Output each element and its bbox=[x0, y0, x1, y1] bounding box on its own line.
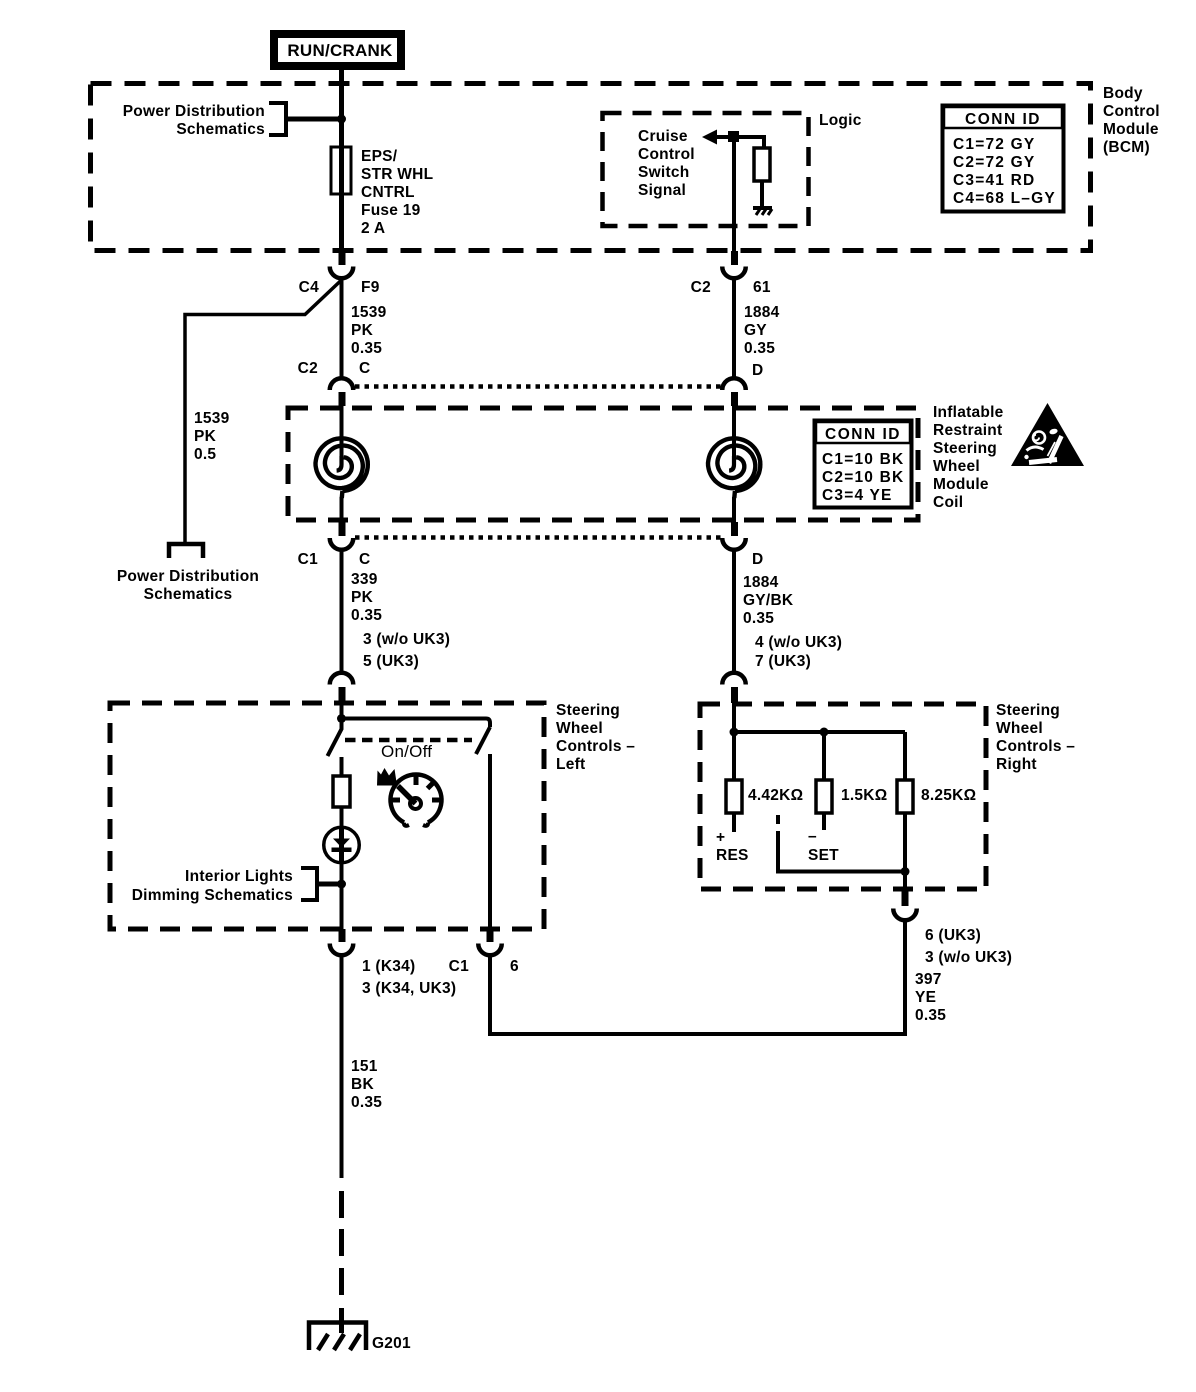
wire fuse to BCM bottom bbox=[339, 194, 344, 251]
wire 1884 GY/BK 0.35 bbox=[732, 549, 736, 672]
svg-text:GY/BK: GY/BK bbox=[743, 592, 794, 609]
wire bus to R RES bbox=[732, 732, 736, 780]
cruise gauge icon bbox=[391, 775, 442, 826]
svg-text:Schematics: Schematics bbox=[176, 121, 265, 138]
svg-text:1884: 1884 bbox=[744, 304, 780, 321]
svg-text:3 (K34, UK3): 3 (K34, UK3) bbox=[362, 980, 456, 997]
wire resistor bus bbox=[734, 730, 905, 734]
svg-text:C1=72 GY: C1=72 GY bbox=[953, 136, 1035, 153]
svg-text:C3=41 RD: C3=41 RD bbox=[953, 172, 1035, 189]
svg-text:1 (K34): 1 (K34) bbox=[362, 958, 415, 975]
svg-text:4 (w/o UK3): 4 (w/o UK3) bbox=[755, 634, 842, 651]
svg-text:Schematics: Schematics bbox=[144, 586, 233, 603]
connector cap C2/C left bbox=[330, 378, 354, 390]
svg-text:151: 151 bbox=[351, 1058, 378, 1075]
lamp LED symbol bbox=[324, 827, 360, 864]
resistor 8.25K bbox=[897, 780, 913, 813]
Steering Wheel Controls Right dashed box bbox=[700, 704, 986, 889]
svg-text:3 (w/o UK3): 3 (w/o UK3) bbox=[363, 631, 450, 648]
svg-text:339: 339 bbox=[351, 571, 378, 588]
label Steering Wheel Controls Left bbox=[556, 702, 635, 773]
Inflatable Restraint Steering Wheel Module Coil dashed box bbox=[288, 408, 918, 520]
svg-text:CNTRL: CNTRL bbox=[361, 184, 415, 201]
junction dot at trunk bbox=[337, 115, 346, 124]
connector stub C2 at BCM bottom right bbox=[731, 251, 738, 265]
wire bus to R 8.25K bbox=[903, 732, 907, 780]
Body Control Module dashed box bbox=[91, 84, 1091, 251]
wire trunk BCM top to fuse bbox=[339, 84, 344, 148]
svg-text:Signal: Signal bbox=[638, 182, 686, 199]
wire switch common bbox=[778, 831, 905, 872]
wire blade to resistor bbox=[340, 757, 344, 776]
junction dot logic bbox=[728, 131, 739, 142]
svg-text:8.25KΩ: 8.25KΩ bbox=[921, 787, 976, 804]
svg-text:STR WHL: STR WHL bbox=[361, 166, 433, 183]
svg-text:Wheel: Wheel bbox=[933, 458, 980, 475]
dotted line connector row 1 bbox=[355, 384, 721, 389]
svg-text:Control: Control bbox=[638, 146, 695, 163]
connector stub below right SWC box bbox=[902, 891, 909, 906]
warning triangle icon bbox=[1011, 403, 1084, 466]
svg-text:C: C bbox=[359, 551, 370, 568]
label Power Distribution Schematics (bottom) bbox=[117, 568, 259, 603]
fuse EPS/STR WHL CNTRL Fuse 19 2A bbox=[331, 147, 351, 194]
svg-text:C2=72 GY: C2=72 GY bbox=[953, 154, 1035, 171]
svg-text:CONN ID: CONN ID bbox=[825, 426, 901, 443]
svg-text:Dimming Schematics: Dimming Schematics bbox=[132, 887, 293, 904]
svg-text:Body: Body bbox=[1103, 85, 1143, 102]
svg-text:5 (UK3): 5 (UK3) bbox=[363, 653, 419, 670]
connector stub into left SWC box bbox=[339, 687, 346, 702]
label wire 1539 PK 0.5 bbox=[194, 410, 230, 463]
svg-text:2 A: 2 A bbox=[361, 220, 385, 237]
switch blade left (On/Off) bbox=[328, 721, 342, 756]
svg-text:Wheel: Wheel bbox=[556, 720, 603, 737]
svg-text:C4: C4 bbox=[299, 279, 319, 296]
svg-text:1539: 1539 bbox=[351, 304, 387, 321]
svg-text:Steering: Steering bbox=[996, 702, 1060, 719]
connector table CONN ID (coil) bbox=[815, 421, 912, 508]
svg-text:Coil: Coil bbox=[933, 494, 963, 511]
svg-text:Left: Left bbox=[556, 756, 585, 773]
coil right (steering wheel coil) bbox=[708, 406, 760, 498]
ground G201 bbox=[309, 1308, 366, 1350]
svg-text:C3=4 YE: C3=4 YE bbox=[822, 487, 893, 504]
switch blade right (On/Off) bbox=[476, 727, 490, 754]
coil left (steering wheel coil) bbox=[316, 406, 368, 498]
svg-text:1539: 1539 bbox=[194, 410, 230, 427]
connector stub C4 at BCM bottom bbox=[339, 251, 346, 265]
svg-text:Module: Module bbox=[1103, 121, 1159, 138]
svg-text:Module: Module bbox=[933, 476, 989, 493]
connector stub below coil box left bbox=[339, 522, 346, 536]
label fuse value bbox=[361, 148, 433, 237]
wire 397 YE routing bbox=[490, 919, 905, 1034]
connector cup C1/6 bbox=[478, 944, 502, 956]
svg-text:Wheel: Wheel bbox=[996, 720, 1043, 737]
dotted line connector row 2 bbox=[355, 535, 721, 540]
connector stub below coil box right bbox=[731, 522, 738, 536]
svg-text:6: 6 bbox=[510, 958, 519, 975]
wire RUN/CRANK to BCM bbox=[339, 70, 344, 84]
svg-text:Cruise: Cruise bbox=[638, 128, 688, 145]
svg-text:C1=10 BK: C1=10 BK bbox=[822, 451, 904, 468]
resistor 4.42K bbox=[726, 780, 742, 813]
svg-text:Steering: Steering bbox=[556, 702, 620, 719]
label Body Control Module (BCM) bbox=[1103, 85, 1160, 156]
ground in logic box bbox=[753, 206, 772, 215]
svg-text:Controls –: Controls – bbox=[996, 738, 1075, 755]
svg-text:Right: Right bbox=[996, 756, 1037, 773]
svg-text:Switch: Switch bbox=[638, 164, 689, 181]
svg-text:3 (w/o UK3): 3 (w/o UK3) bbox=[925, 949, 1012, 966]
svg-text:D: D bbox=[752, 362, 763, 379]
svg-text:SET: SET bbox=[808, 847, 839, 864]
bracket Interior Lights bbox=[301, 868, 317, 900]
wire 151 BK 0.35 bbox=[340, 954, 344, 1178]
svg-text:D: D bbox=[752, 551, 763, 568]
svg-text:C: C bbox=[359, 360, 370, 377]
svg-text:G201: G201 bbox=[372, 1335, 411, 1352]
junction dot right bus left bbox=[730, 728, 739, 737]
connector cap into left SWC box bbox=[330, 673, 354, 685]
svg-text:C1: C1 bbox=[298, 551, 318, 568]
svg-text:0.35: 0.35 bbox=[743, 610, 774, 627]
wire switch top bus bbox=[342, 719, 491, 728]
label Inflatable Restraint Steering Wheel Module Coil bbox=[933, 404, 1004, 511]
wire branch diagonal to Power Distribution bbox=[185, 280, 342, 542]
resistor left SWC bbox=[333, 776, 350, 807]
switch common dashed tick bbox=[776, 815, 780, 824]
svg-text:C2=10 BK: C2=10 BK bbox=[822, 469, 904, 486]
svg-text:GY: GY bbox=[744, 322, 767, 339]
svg-text:Controls –: Controls – bbox=[556, 738, 635, 755]
connector stub below left SWC box (left) bbox=[339, 929, 346, 942]
wire bracket to main trunk bbox=[286, 117, 342, 122]
connector cup 6/3 bbox=[893, 909, 917, 921]
connector cup C2/61 bbox=[722, 267, 746, 279]
svg-text:BK: BK bbox=[351, 1076, 374, 1093]
junction dot switch node bbox=[337, 714, 346, 723]
switch linkage dashed bbox=[345, 738, 472, 743]
wire resistor to ground bbox=[760, 181, 764, 206]
svg-text:PK: PK bbox=[194, 428, 217, 445]
svg-text:0.5: 0.5 bbox=[194, 446, 216, 463]
wire resistor to lamp bbox=[340, 807, 344, 827]
connector cup D (below coil) bbox=[722, 538, 746, 550]
wire logic junction down through BCM bottom bbox=[732, 137, 736, 251]
wire coil left exit bbox=[340, 497, 344, 522]
svg-text:RES: RES bbox=[716, 847, 749, 864]
off-page connector symbol Power Distribution bbox=[169, 544, 203, 558]
bracket for Power Distribution label bbox=[269, 103, 286, 135]
svg-text:Fuse 19: Fuse 19 bbox=[361, 202, 421, 219]
svg-text:(BCM): (BCM) bbox=[1103, 139, 1150, 156]
svg-text:–: – bbox=[808, 828, 817, 845]
svg-text:Restraint: Restraint bbox=[933, 422, 1002, 439]
label + RES bbox=[716, 829, 749, 864]
label wire 1539 PK 0.35 bbox=[351, 304, 387, 357]
wire right switch leg bbox=[488, 754, 492, 929]
svg-text:0.35: 0.35 bbox=[915, 1007, 946, 1024]
svg-text:Inflatable: Inflatable bbox=[933, 404, 1004, 421]
svg-text:+: + bbox=[716, 829, 725, 846]
svg-text:C4=68 L–GY: C4=68 L–GY bbox=[953, 190, 1056, 207]
wire into left SWC box bbox=[340, 701, 344, 719]
connector cap into right SWC box bbox=[722, 673, 746, 685]
wire 339 PK 0.35 bbox=[340, 549, 344, 672]
wire coil right exit bbox=[732, 497, 736, 522]
connector stub below left SWC box (right) bbox=[487, 929, 494, 942]
svg-text:4.42KΩ: 4.42KΩ bbox=[748, 787, 803, 804]
svg-text:0.35: 0.35 bbox=[351, 607, 382, 624]
svg-text:F9: F9 bbox=[361, 279, 380, 296]
label Cruise Control Switch Signal bbox=[638, 128, 695, 199]
wire arrow to resistor corner bbox=[717, 137, 764, 148]
svg-text:C1: C1 bbox=[449, 958, 469, 975]
svg-text:RUN/CRANK: RUN/CRANK bbox=[287, 41, 393, 60]
svg-text:Power Distribution: Power Distribution bbox=[123, 103, 265, 120]
label Power Distribution Schematics (top) bbox=[123, 103, 265, 138]
junction dot right bus mid bbox=[820, 728, 829, 737]
connector stub into coil box left bbox=[339, 392, 346, 406]
wire RES contact bbox=[732, 813, 736, 832]
connector stub into coil box right bbox=[731, 392, 738, 406]
wire 1539 PK 0.35 bbox=[340, 277, 344, 377]
connector cup 1/3 bbox=[330, 944, 354, 956]
wire dashed to ground bbox=[339, 1191, 344, 1295]
label wire 1884 GY 0.35 bbox=[744, 304, 780, 357]
wire into right SWC box bbox=[732, 703, 736, 732]
wire SET contact bbox=[822, 813, 826, 830]
wire bracket to lamp wire bbox=[317, 882, 341, 887]
svg-text:Logic: Logic bbox=[819, 112, 862, 129]
svg-text:Steering: Steering bbox=[933, 440, 997, 457]
power label RUN/CRANK bbox=[270, 30, 405, 70]
label wire 151 BK 0.35 bbox=[351, 1058, 382, 1111]
svg-text:1.5KΩ: 1.5KΩ bbox=[841, 787, 887, 804]
svg-text:Control: Control bbox=[1103, 103, 1160, 120]
connector table CONN ID (BCM) bbox=[943, 106, 1064, 212]
svg-text:C2: C2 bbox=[298, 360, 318, 377]
connector stub into right SWC box bbox=[731, 687, 738, 703]
Steering Wheel Controls Left dashed box bbox=[110, 703, 544, 929]
svg-text:On/Off: On/Off bbox=[381, 742, 432, 761]
svg-text:C2: C2 bbox=[691, 279, 711, 296]
label Steering Wheel Controls Right bbox=[996, 702, 1075, 773]
arrow cruise signal bbox=[702, 130, 717, 145]
svg-text:6 (UK3): 6 (UK3) bbox=[925, 927, 981, 944]
svg-text:Interior Lights: Interior Lights bbox=[185, 868, 293, 885]
resistor 1.5K bbox=[816, 780, 832, 813]
svg-text:0.35: 0.35 bbox=[351, 1094, 382, 1111]
junction dot switch common bbox=[901, 867, 910, 876]
svg-text:7 (UK3): 7 (UK3) bbox=[755, 653, 811, 670]
svg-text:Power Distribution: Power Distribution bbox=[117, 568, 259, 585]
cruise indicator arrow bbox=[377, 768, 397, 786]
label Interior Lights Dimming Schematics bbox=[132, 868, 293, 904]
svg-text:CONN ID: CONN ID bbox=[965, 111, 1041, 128]
wire 1884 GY 0.35 bbox=[732, 277, 736, 377]
wire bus to R SET bbox=[822, 732, 826, 780]
junction dot dimming bbox=[337, 880, 346, 889]
svg-text:PK: PK bbox=[351, 589, 374, 606]
svg-text:61: 61 bbox=[753, 279, 771, 296]
svg-text:1884: 1884 bbox=[743, 574, 779, 591]
label - SET bbox=[808, 828, 839, 864]
label wire 397 YE 0.35 bbox=[915, 971, 946, 1024]
svg-text:PK: PK bbox=[351, 322, 374, 339]
connector cup C4/F9 bbox=[330, 267, 354, 279]
resistor in logic box bbox=[754, 148, 770, 181]
connector cup C1/C bbox=[330, 538, 354, 550]
wire 8.25K to box bottom bbox=[903, 813, 907, 891]
label wire 339 PK 0.35 bbox=[351, 571, 382, 624]
svg-text:0.35: 0.35 bbox=[744, 340, 775, 357]
svg-text:YE: YE bbox=[915, 989, 936, 1006]
wire lamp to box bottom bbox=[340, 863, 344, 929]
logic dashed box bbox=[603, 113, 809, 226]
connector cap D right bbox=[722, 378, 746, 390]
svg-text:EPS/: EPS/ bbox=[361, 148, 398, 165]
svg-text:397: 397 bbox=[915, 971, 942, 988]
svg-text:0.35: 0.35 bbox=[351, 340, 382, 357]
label wire 1884 GY/BK 0.35 bbox=[743, 574, 794, 627]
